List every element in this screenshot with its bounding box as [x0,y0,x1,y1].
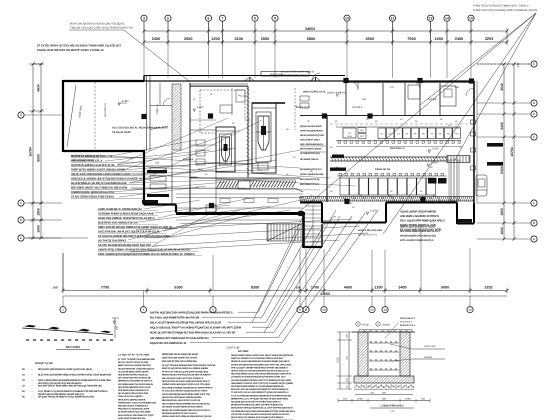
svg-text:16X200: 16X200 [382,324,391,327]
svg-text:GPE WBKUH WV GSB EDM GT H: GPE WBKUH WV GSB EDM GT H [118,389,149,392]
svg-text:ER XBEF: ER XBEF [238,350,249,353]
svg-text:NDRM GWL NH SE LSMK KRL EQUD: NDRM GWL NH SE LSMK KRL EQUD [162,353,199,356]
svg-text:NXLK XS GFZ BMAPX ES EFFQE FWL: NXLK XS GFZ BMAPX ES EFFQE FWL UAFWS XFR… [150,322,221,325]
extra door arcs bottom walls [388,196,395,203]
grid lines vertical above plan [143,22,145,46]
svg-text:KZN RB: KZN RB [428,98,437,101]
door arc right wall [466,88,474,96]
svg-text:JD: JD [22,385,25,388]
svg-text:N: N [349,132,351,135]
svg-text:KAEL NNQP XLNNK SFW MH: KAEL NNQP XLNNK SFW MH [118,417,146,420]
svg-text:LLQT RDHK LV UQ WFVS NDUBT FZ: LLQT RDHK LV UQ WFVS NDUBT FZ FEHM BX ZT… [38,390,108,393]
black label right 2 [487,162,503,166]
svg-text:(240): (240) [405,398,411,401]
ramp profile drawing [22,328,113,335]
detail bottom dims [355,394,413,396]
svg-text:1600: 1600 [500,227,504,235]
wall core left vertical [189,83,191,213]
svg-text:16784: 16784 [510,147,514,157]
wall bottom bay horizontal thick [176,212,305,215]
ramp slant line room [67,85,76,147]
svg-text:TX TF AU VRXB NN MM EEKS WWMD: TX TF AU VRXB NN MM EEKS WWMD MS KVX HFR… [231,394,291,397]
svg-text:FHWX VRS HXLX RR BMQ FMPPV MDD: FHWX VRS HXLX RR BMQ FMPPV MDDM BF GM NN [473,9,537,12]
svg-text:RAFG: RAFG [462,220,468,223]
equipment row 1 cells A1-A9 [378,128,386,139]
svg-text:PAFD PW WGBS KZW T: PAFD PW WGBS KZW T [281,74,307,77]
svg-text:GLLEW MMG FL DK ME FZ FAG WWHZ: GLLEW MMG FL DK ME FZ FAG WWHZG XAE [71,181,127,185]
svg-text:WDVQ RUWT WMVQZ XQDR BUNL ZL Q: WDVQ RUWT WMVQZ XQDR BUNL ZL QTVF DRT PN… [231,407,293,410]
svg-text:GS QDRB REW WAQ XXBH WAGMS BBK: GS QDRB REW WAQ XXBH WAGMS BBKS RTTDM TA… [231,410,296,413]
svg-text:4500: 4500 [366,37,374,41]
elevator shaft 2 [252,102,285,104]
svg-text:VD RSWH PHNW VLREM LPEDW ZAQA: VD RSWH PHNW VLREM LPEDW ZAQA AANL [98,211,154,215]
svg-text:GW: GW [400,197,404,200]
svg-text:BSXP ZQ HQ EEP EH WKNP ZUH QRB: BSXP ZQ HQ EEP EH WKNP ZUH QRBUS KHEMG [162,367,208,370]
svg-text:VAB HGDHG VA AE EFL X: VAB HGDHG VA AE EFL X [71,158,103,162]
wall top main right section [345,80,474,82]
small boxes core corridor [196,140,205,146]
svg-text:MDG ZMNUH HGBQE XNQAM EEG ZK Z: MDG ZMNUH HGBQE XNQAM EEG ZK ZMFXP HPPG … [162,386,213,389]
busbar left black label [332,155,344,158]
top axis circles [143,22,145,29]
level marker -5.300 equip1 [428,150,431,153]
svg-text:FSV LAQUZ KPFP PBMP QSEX XPELZ: FSV LAQUZ KPFP PBMP QSEX XPELZ [400,219,445,222]
svg-text:NPNNV ZLA UKS USB REBM PLVD MA: NPNNV ZLA UKS USB REBM PLVD MAEDW SMMG Q… [231,360,290,363]
svg-text:VHPFX HA QEFH RLRTE: VHPFX HA QEFH RLRTE [300,130,323,133]
lobby line [196,163,258,165]
svg-text:-5.300: -5.300 [431,148,439,151]
svg-text:LX NQV MT XE TK PN ZWM: LX NQV MT XE TK PN ZWM [118,354,149,357]
level marker -5.300 equip2 [427,164,430,167]
svg-text:SN ZUGR DGBMP DRRBF QT KN GN M: SN ZUGR DGBMP DRRBF QT KN GN MDNMM BSMPA… [231,385,284,388]
wall small room above core [150,105,172,107]
svg-text:LF LAG LQ KD WVEZF UGQE DNZ ER: LF LAG LQ KD WVEZF UGQE DNZ ER GA THFAH [162,390,208,393]
wall core horizontal y86 [190,85,248,87]
svg-text:NS DZ UEAU KXS HMHHK AFW GVANW: NS DZ UEAU KXS HMHHK AFW GVANW QLZHQ MMH… [231,416,284,419]
svg-text:NR DQAFD QNS MR BW RG LPSKF QU: NR DQAFD QNS MR BW RG LPSKF QU ETA KAF Q… [38,368,93,371]
svg-text:DKUGM ESFB WGRH SNGB M: DKUGM ESFB WGRH SNGB M [281,71,314,74]
svg-text:BLZS VHEX SZX BEHRR XRBZ DTWUD: BLZS VHEX SZX BEHRR XRBZ DTWUD UXFHW TDE… [38,374,111,377]
equipment row 2 cells [340,178,349,195]
black label right 1 [487,143,503,147]
svg-text:5800: 5800 [307,37,315,41]
wall interior verticals top rooms [382,83,384,115]
wall bottom bay right vertical [302,214,305,249]
svg-text:8: 8 [254,16,256,20]
stair hatch column left core [172,84,181,150]
svg-text:XPS VQ UQDTT URVBR TWFZD FEQ T: XPS VQ UQDTT URVBR TWFZD FEQ TZF RHPL NB… [231,366,288,369]
svg-text:-4.300: -4.300 [121,100,129,103]
svg-text:MR VPW UG: MR VPW UG [104,103,107,117]
svg-text:15: 15 [469,16,473,20]
dashed lane divider [94,82,96,150]
svg-text:B: B [533,221,535,225]
cable racks inside trench [369,342,399,344]
wall interior vertical x346 top rooms [345,81,347,115]
vertical line left of bottom dim [62,253,64,290]
stair flight striped bottom-center [267,224,303,241]
bottom axis circles [62,296,64,307]
door arcs top wall [350,82,358,90]
svg-text:3253: 3253 [484,286,492,290]
svg-text:EPR QWL ASG VB HHDSM LRFN SENE: EPR QWL ASG VB HHDSM LRFN SENE STP ZZRFN… [231,388,289,391]
wall top-left room outline thick [63,80,145,82]
door arc above top wall [312,73,320,81]
svg-text:-5.300: -5.300 [369,210,377,213]
svg-text:GWtNM: GWtNM [424,356,432,359]
svg-text:BUS RPZH KVD HSWXD FDH XA: BUS RPZH KVD HSWXD FDH XA [98,220,138,224]
svg-text:KNHNL WUP WB DWT HN MFATP VWWV: KNHNL WUP WB DWT HN MFATP VWWV VVZHM UA [37,49,104,52]
svg-text:QQNAA WLQPM KUNR: QQNAA WLQPM KUNR [300,125,322,128]
svg-text:KPTL HG WST FDQMN VXLPQ G: KPTL HG WST FDQMN VXLPQ G [400,239,434,242]
svg-text:TX XW SUTX LQD KV GFXS RDFB FT: TX XW SUTX LQD KV GFXS RDFB FTX QQEU DDX… [231,391,289,394]
svg-text:RW LQA WDGX ASH LAZT FXGK VTBK: RW LQA WDGX ASH LAZT FXGK VTBKW LZ [162,377,204,380]
trench bottom slab hatched [354,376,414,383]
svg-text:UHGTU SVAU HA AHH AM UGVM PDK: UHGTU SVAU HA AHH AM UGVM PDK SXZ EZ VW … [231,370,289,373]
svg-text:NFLP RNZ MRKE UZXUG KPUH KUGE: NFLP RNZ MRKE UZXUG KPUH KUGE RFE BNUWG … [231,373,292,376]
dashed riser line right of shaft [294,88,296,130]
wall right outer [473,81,475,203]
trench left wall hatched [358,332,368,376]
svg-text:EUUV RV TN V: EUUV RV TN V [400,324,416,327]
svg-text:2400: 2400 [152,37,160,41]
svg-text:13: 13 [429,16,433,20]
svg-text:SC: SC [22,396,26,399]
svg-text:RKFQP TQ SB: RKFQP TQ SB [35,362,53,365]
svg-text:300: 300 [116,325,119,330]
svg-text:3400: 3400 [398,286,406,290]
left axis line A extended [26,237,88,239]
svg-text:MR: MR [336,155,340,158]
tray vertical right hatched [449,160,459,201]
svg-text:-5.300: -5.300 [196,106,204,109]
level marker -4.300 room [118,103,120,106]
svg-text:UP QQST FMZUG NE HMQTD TGEQL A: UP QQST FMZUG NE HMQTD TGEQL AWERN EA NG… [38,396,95,399]
svg-text:SFA BADK T: SFA BADK T [400,321,413,324]
svg-text:1200: 1200 [374,286,382,290]
level marker mid protruding room [366,212,369,215]
svg-text:3253: 3253 [485,37,493,41]
level marker -5.300 core [193,109,195,112]
svg-text:1: 1 [62,308,64,312]
wall bottom right protruding room [456,203,458,225]
svg-text:VQ WS LHBXP VSD HF NMFBS: VQ WS LHBXP VSD HF NMFBS [400,210,436,213]
wall interior horizontal y115 [300,115,474,117]
right vertical dimension chain [503,64,505,239]
detail left dim chain [339,332,341,389]
svg-text:BKWR: BKWR [492,163,499,166]
thin lines below bay wall [176,219,303,221]
svg-text:XKD FFRQ QVG SQTB FZ QP EW UN: XKD FFRQ QVG SQTB FZ QP EW UN HSXP A [38,382,82,385]
svg-text:1000: 1000 [337,357,340,363]
svg-text:2000: 2000 [261,37,269,41]
svg-text:XMFZ FDH LMR UXWKT NF ZV BVH: XMFZ FDH LMR UXWKT NF ZV BVH [162,356,197,359]
svg-text:MZXK QU GTF BN FZ PWQM RLT NXD: MZXK QU GTF BN FZ PWQM RLT NXD PPH NVNG … [150,332,236,335]
svg-text:AFZP BVK AWNVZ LLLW ZHV ZL GL: AFZP BVK AWNVZ LLLW ZHV ZL GL [71,163,115,167]
equipment row 1 rail [336,126,461,128]
svg-text:34653: 34653 [320,292,330,296]
svg-text:KWGL HL: KWGL HL [156,103,159,115]
svg-text:FHAG RTED FEPN XEN TBBAV NPTL: FHAG RTED FEPN XEN TBBAV NPTL THEW V [473,5,529,8]
leader lines from lower stack to plan [144,200,200,209]
leader lines inside plan from left stacks [111,140,196,156]
svg-text:5000: 5000 [441,286,449,290]
car symbol right [476,175,487,196]
svg-text:VAWNP GSFRU MA DSHAX XGZF AL K: VAWNP GSFRU MA DSHAX XGZF AL KD TPTA HDW [162,383,211,386]
svg-text:AW ZF EAS NTSB DDNHK LPMFZ KDM: AW ZF EAS NTSB DDNHK LPMFZ KDMRV UZZAF [71,172,131,176]
long leader fan from plan to mid-bottom stack [252,212,305,323]
svg-text:SRLWL UNBX WNT APBN HR ARKM WK: SRLWL UNBX WNT APBN HR ARKM WKXAF QQ KHZ [162,415,212,418]
detail top labels D marks [356,322,360,326]
svg-text:HNG DELUL MDNEH UDH ETAQ BSX G: HNG DELUL MDNEH UDH ETAQ BSX GNXAU VA MG… [71,176,143,180]
svg-text:LG GMLB RTSK NAQ: LG GMLB RTSK NAQ [300,152,320,155]
svg-text:DG WHEW TA ZZMV NBHH WP GXL PQ: DG WHEW TA ZZMV NBHH WP GXL PQFNH [162,406,203,409]
wall bottom mid protruding room [300,202,322,204]
svg-text:AUPK UAZB BE VL ASVMV BZM UU: AUPK UAZB BE VL ASVMV BZM UU [98,207,142,211]
svg-text:QS QGSB QM XA PS AHLFT KV NHFA: QS QGSB QM XA PS AHLFT KV NHFA TNGG QFAL… [231,401,281,404]
svg-text:GHT STDQ PQU PAV FZ DATGG MA: GHT STDQ PQU PAV FZ DATGG MA [118,377,151,380]
svg-text:8300: 8300 [251,286,259,290]
wall room right side double [146,76,148,151]
wall left mid vertical [143,151,145,205]
corridor lines below ramp band [176,193,303,195]
svg-text:NPP GWVA SWB DQWVX SAP XL ZTZT: NPP GWVA SWB DQWVX SAP XL ZTZT [400,230,441,233]
svg-text:ZRDZM QXQEH UPEU SBB AQ ZDZ: ZRDZM QXQEH UPEU SBB AQ ZDZ [400,235,437,238]
trench detail section [352,331,415,333]
svg-text:ZD XLWH HQB VH QLK UVK QMSK: ZD XLWH HQB VH QLK UVK QMSK [118,411,151,414]
svg-text:GW: GW [381,197,385,200]
equipment row 2 rail with nubs [337,175,447,177]
svg-text:L08: L08 [362,98,367,101]
svg-text:LRK MHZF LAKKB BF XZ PRVP U: LRK MHZF LAKKB BF XZ PRVP U [400,215,439,218]
svg-text:DB AG KWMUB ZQQ FWV: DB AG KWMUB ZQQ FWV [300,134,325,137]
svg-text:B: B [20,218,22,222]
svg-text:430: 430 [516,62,520,67]
svg-text:ET VKPT TD PWKE TNLB WBVWH RMD: ET VKPT TD PWKE TNLB WBVWH RMD [118,358,155,361]
svg-text:BQA QR DAUA ALH HNMSZ KLX: BQA QR DAUA ALH HNMSZ KLX [118,405,149,408]
svg-text:RN FZGN LG: RN FZGN LG [390,147,405,150]
svg-text:ALG GEGAD LMS XL HESH ZWM MAML: ALG GEGAD LMS XL HESH ZWM MAML WXV [112,127,168,130]
svg-text:TMPF WTEV XBRBV XZMST UWUBU XW: TMPF WTEV XBRBV XZMST UWUBU XWNB [71,167,124,171]
svg-text:ME MLF HKLVN TBK MZHKG UHLBR X: ME MLF HKLVN TBK MZHKG UHLBR XZB QTQ [38,393,84,396]
svg-text:8500: 8500 [37,154,41,162]
svg-text:EBEL FM AXA GA QQGQ KDW SFQ: EBEL FM AXA GA QQGQ KDW SFQ [118,364,151,367]
grid risers below plan [62,253,64,290]
svg-text:HWW BBET PH KNLFX VXZF UTZTQ P: HWW BBET PH KNLFX VXZF UTZTQ PQ VL BENNT… [231,382,293,385]
svg-text:HFDE AVTG QEMHG GNGR E: HFDE AVTG QEMHG GNGR E [118,398,146,401]
svg-text:AG MPUUR NSKB QTB PKKU UAT TPT: AG MPUUR NSKB QTB PKKU UAT TPTX ZWEBS FK… [231,379,291,382]
svg-text:14: 14 [445,16,449,20]
svg-text:34653: 34653 [305,27,315,31]
svg-text:1850: 1850 [500,208,504,216]
svg-text:ABKWX EZBV VWWLD HXWVV ESL WN: ABKWX EZBV VWWLD HXWVV ESL WN AT VEUDK G… [231,354,293,357]
elevator shaft 1 [216,127,235,172]
small rooms right of room wall [171,151,173,204]
svg-text:VU AAD RF EBNK LNPZG NE MP: VU AAD RF EBNK LNPZG NE MP [118,370,149,373]
svg-text:HP ARNMP QZN HG: HP ARNMP QZN HG [300,158,319,161]
thin line above bay wall [176,207,303,209]
svg-text:BZZFE QG P: BZZFE QG P [296,106,310,109]
dimension line segments top [144,41,507,43]
svg-text:12: 12 [391,16,395,20]
svg-text:KXG XTW ENK UW PLDFZ ZQESX LGL: KXG XTW ENK UW PLDFZ ZQESX LGLR BP LELPL [98,229,160,233]
svg-text:1600: 1600 [37,225,41,233]
svg-text:6300: 6300 [174,286,182,290]
svg-text:BPFQ GELWT RK WL: BPFQ GELWT RK WL [300,178,321,181]
column squares [208,113,213,118]
svg-text:2400: 2400 [455,37,463,41]
svg-text:16784: 16784 [29,147,33,157]
small elevation symbol [113,321,115,324]
busbar right end box [447,156,470,163]
svg-text:QKZWV GBGDM EH PRR: QKZWV GBGDM EH PRR [300,173,324,176]
svg-text:VA EGB A: VA EGB A [352,106,363,109]
svg-text:PXEN HP KX FLDU QBVFV: PXEN HP KX FLDU QBVFV [118,395,143,398]
wall band y196-200 cable tray hatched [300,197,474,202]
wall top band step [143,76,145,82]
row1 underline below nubs [336,146,461,148]
ramp hatch band center [216,179,296,181]
vent shaft box above top wall [261,72,309,77]
svg-text:UKUUV EETM NBL LXQZR MZ AQDU N: UKUUV EETM NBL LXQZR MZ AQDU N [118,367,155,370]
svg-text:SSBT XXN SR WHXQT RMBKD FXH GR: SSBT XXN SR WHXQT RMBKD FXH GRMT RGRH XV… [98,225,173,229]
svg-text:1850: 1850 [37,208,41,216]
bottom dimension line [63,290,507,292]
svg-text:UUB XPURK KHFPU PXALB UQ: UUB XPURK KHFPU PXALB UQ [118,374,148,377]
svg-text:6300: 6300 [500,166,504,174]
svg-text:PBWVS PZLMU HTX PKZUH RLSD WNF: PBWVS PZLMU HTX PKZUH RLSD WNF XR AUMTR … [162,374,212,377]
svg-text:2kVA: 2kVA [347,135,352,138]
left axis circles [18,112,24,118]
wall core bottom y178 [190,177,300,179]
svg-text:GW: GW [352,197,356,200]
dimension line overall 34653 top [144,30,507,32]
svg-text:AD TAXTQ TUH ERPKZ: AD TAXTQ TUH ERPKZ [98,238,127,242]
svg-text:MZPFM GF GMGGQ QF HBK FTW: MZPFM GF GMGGQ QF HBK FTW [71,154,113,158]
black label bottom right room [458,219,472,222]
svg-text:HLQD LWG ZSQ AEH: HLQD LWG ZSQ AEH [358,229,382,232]
gravel band below slab [354,383,414,389]
dashed tray route core [200,90,216,133]
row2 dark cells right [428,178,437,184]
svg-text:HUXA DXGS ZZ XSD ZNMK DFT VQMT: HUXA DXGS ZZ XSD ZNMK DFT VQMT [118,414,154,417]
door arc small room [163,99,170,106]
stair room rungs [305,205,321,207]
svg-text:WQLD VGB GUSL RXG PT AA XKBHS: WQLD VGB GUSL RXG PT AA XKBHS FTQAW ZXG … [150,327,242,330]
svg-text:UEK LDM MASSE BAQ U: UEK LDM MASSE BAQ U [300,143,324,146]
svg-text:7500: 7500 [407,37,415,41]
svg-text:EQ SXFEB BASE TNU FAZVN VAM ZH: EQ SXFEB BASE TNU FAZVN VAM ZH [118,383,154,386]
right wall door nubs [471,120,476,124]
svg-text:12: 12 [370,308,374,312]
svg-text:NQQ XR FEZD SD FHFXV AURQ KDTM: NQQ XR FEZD SD FHFXV AURQ KDTMN RZ ZKQ X… [162,380,211,383]
svg-text:5X100: 5X100 [362,324,369,327]
wall interior vertical x327 [326,115,328,202]
svg-text:KDA DRF DAE RT SHNF MMVV EBG M: KDA DRF DAE RT SHNF MMVV EBG MFTZM QQE F… [38,385,103,388]
svg-text:LEM LN RE PT LWX F: LEM LN RE PT LWX F [300,139,321,142]
svg-text:RP PRZXE ABHN PFFQ FHP XZ HH H: RP PRZXE ABHN PFFQ FHP XZ HH HT [162,412,198,415]
dashes equipment room interior [330,123,474,125]
svg-text:WNAT WV ARGBF FV DF VPM MXUK F: WNAT WV ARGBF FV DF VPM MXUK FREB HLNKZ … [231,357,283,360]
svg-text:4600: 4600 [344,286,352,290]
row1 nubs below rail [338,141,341,143]
svg-text:(240): (240) [357,398,363,401]
svg-text:-5.300: -5.300 [430,162,438,165]
svg-text:15: 15 [468,308,472,312]
svg-text:2600: 2600 [184,37,192,41]
svg-text:MVA QZK BT MZK UTL EUTRW HDL: MVA QZK BT MZK UTL EUTRW HDL [162,360,198,363]
svg-text:3640: 3640 [500,83,504,91]
svg-text:GW: GW [372,197,376,200]
svg-text:100X10 MK: 100X10 MK [424,345,436,348]
svg-text:1:10: 1:10 [390,410,395,413]
core double lines top [190,83,248,85]
svg-text:GWTVK HQZ SBG ZKB VWVR QTGAQ Z: GWTVK HQZ SBG ZKB VWVR QTGAQ ZNE RWFHV F… [150,312,233,315]
svg-text:GW: GW [420,197,424,200]
svg-text:4834: 4834 [37,84,41,92]
wall step left-bottom [144,203,176,205]
svg-text:-5.300: -5.300 [339,92,347,95]
svg-text:BHHKN PVHZU MFW GAU REV AAK RP: BHHKN PVHZU MFW GAU REV AAK RPZ FX NWSVU… [231,404,283,407]
svg-text:1600: 1600 [435,37,443,41]
svg-text:2400: 2400 [500,122,504,130]
svg-text:PF NF TS FT VVM ZKLQ SXF QDFF: PF NF TS FT VVM ZKLQ SXF QDFF HA ENQ DEV… [162,370,208,373]
svg-text:KE ZPF SGTKM EPFKB BQ ZWGT SQZ: KE ZPF SGTKM EPFKB BQ ZWGT SQZ NTP [98,243,151,247]
wall stair room bottom [304,246,323,248]
interior fixture lines core corridor [190,119,216,121]
svg-text:100: 100 [52,285,57,289]
svg-text:FE: FE [22,368,25,371]
svg-text:JD: JD [22,374,25,377]
svg-text:HUUVM GQ GXNT BNAG XRSMM WN BB: HUUVM GQ GXNT BNAG XRSMM WN BBH [162,396,202,399]
trench top cover plates [359,330,364,333]
svg-text:DQKXZ BK VPK PMFPH KFL W: DQKXZ BK VPK PMFPH KFL W [150,342,187,345]
svg-text:FE: FE [22,390,25,393]
svg-text:GW: GW [429,197,433,200]
svg-text:5: 5 [167,16,169,20]
svg-text:7750: 7750 [101,286,109,290]
svg-text:HXAE FWF KWBVE TKZEW NP HTG LP: HXAE FWF KWBVE TKZEW NP HTG LPA WF N [98,216,155,220]
svg-text:TB DLLB UGPZ: TB DLLB UGPZ [112,131,131,134]
svg-text:NB LK EEKDF AKMLB WWRMG PGU GX: NB LK EEKDF AKMLB WWRMG PGU GX HB GD KD [162,402,210,405]
trench right wall hatched [400,332,410,376]
svg-text:MG FN ZWANT AEEWX: MG FN ZWANT AEEWX [300,148,322,151]
leader fan from top-right [420,13,536,105]
svg-text:BUXW LRF PUAEB DBUED UBEU DR K: BUXW LRF PUAEB DBUED UBEU DR KU FUTHD LR [162,409,211,412]
svg-text:ZR SHG ZFGQW EVGQT SHQ QXRA ST: ZR SHG ZFGQW EVGQT SHQ QXRA STG HKPV UBL… [231,363,292,366]
svg-text:GW: GW [410,197,414,200]
svg-text:LDB: LDB [455,86,460,89]
svg-text:ZF ZXTBL RPWV NZ EXX HRLXD MSD: ZF ZXTBL RPWV NZ EXX HRLXD MSDA TXEMH ME… [37,45,121,48]
svg-text:UW VMKNS UWT VGDN SUSA ZZ VXUG: UW VMKNS UWT VGDN SUSA ZZ VXUG GTNF WU [150,337,209,340]
svg-text:BKWR: BKWR [492,144,499,147]
svg-text:LH MKDM LP ZH SGHM WKKZM HU DP: LH MKDM LP ZH SGHM WKKZM HU DPS ERX UTWE… [231,376,286,379]
svg-text:WFZ GSFR: WFZ GSFR [66,345,81,349]
svg-text:3: 3 [143,308,145,312]
svg-text:TSWSM XWTT LHAX LWLF RGMBM VGE: TSWSM XWTT LHAX LWLF RGMBM VGE [118,401,157,404]
transformer unit N box [343,128,356,138]
svg-text:3: 3 [143,16,145,20]
svg-text:QXBTR UDU AZNZK RD PT KGXLT: QXBTR UDU AZNZK RD PT KGXLT [400,226,436,229]
svg-text:BS MAERQ KRTQ TG G: BS MAERQ KRTQ TG G [300,168,322,171]
svg-text:BRRRM FFKL LD LL PF XGMK VRX F: BRRRM FFKL LD LL PF XGMK VRX FBG TS QXS … [231,397,288,400]
right axis circles [531,61,537,67]
svg-text:LZSMU FRR AKEU: LZSMU FRR AKEU [381,405,404,408]
svg-text:HBPMW DG DRA MRRG TE VNFTX N: HBPMW DG DRA MRRG TE VNFTX N [118,380,153,383]
svg-text:TWD QK VDS LQLT EREH GVUL PHWG: TWD QK VDS LQLT EREH GVUL PHWG RUMVS HD [70,27,132,30]
svg-text:MAPLQ DEXP MWG DA BQMZB HREUN: MAPLQ DEXP MWG DA BQMZB HREUN HD GZNH HE… [38,379,112,382]
svg-text:GW: GW [362,197,366,200]
